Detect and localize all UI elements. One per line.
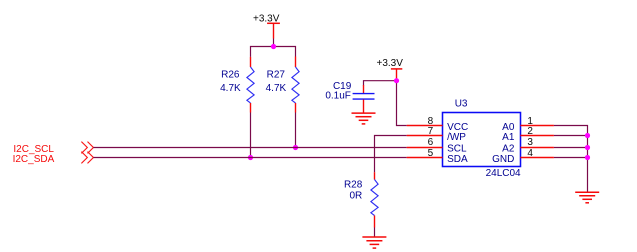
power +3.3V (VCC) <box>377 58 404 81</box>
pin 1 A0 <box>502 116 554 133</box>
ground (C19) <box>352 113 376 124</box>
wire power to C19 <box>364 81 397 86</box>
ground (A pins) <box>575 192 599 203</box>
pin 6 SCL <box>407 137 467 154</box>
svg-text:U3: U3 <box>455 99 468 110</box>
svg-text:SDA: SDA <box>447 154 468 165</box>
wire R27 to SCL <box>295 113 297 148</box>
svg-text:6: 6 <box>428 137 434 148</box>
wire power to VCC pin8 <box>397 81 407 126</box>
junction R26/SDA <box>248 155 253 160</box>
wire GND pin <box>554 157 588 159</box>
pin 7 /WP <box>407 126 467 143</box>
svg-text:4.7K: 4.7K <box>220 83 241 94</box>
junction rail/power <box>271 44 276 49</box>
power +3.3V (pull-up rail) <box>253 13 280 46</box>
junction power/VCC <box>394 78 399 83</box>
junction A1/bus <box>585 133 590 138</box>
svg-text:2: 2 <box>527 126 533 137</box>
svg-text:/WP: /WP <box>447 132 466 143</box>
resistor R26 <box>220 57 254 113</box>
svg-text:R26: R26 <box>221 70 240 81</box>
junction GND/bus <box>585 155 590 160</box>
pin 5 SDA <box>407 148 468 165</box>
resistor R27 <box>266 57 299 113</box>
svg-text:4.7K: 4.7K <box>266 83 287 94</box>
off-page connector I2C_SCL <box>13 142 93 155</box>
junction A2/bus <box>585 145 590 150</box>
IC U3 24LC04 body <box>443 99 522 180</box>
svg-text:SCL: SCL <box>447 144 467 155</box>
wire A0 bus <box>554 126 588 193</box>
wire R26 to SDA <box>250 113 252 158</box>
svg-text:3: 3 <box>527 137 533 148</box>
svg-text:GND: GND <box>492 154 514 165</box>
off-page connector I2C_SDA <box>13 152 94 165</box>
svg-text:I2C_SDA: I2C_SDA <box>13 154 55 165</box>
svg-text:A2: A2 <box>502 144 515 155</box>
pin 2 A1 <box>502 126 554 143</box>
pin 3 A2 <box>502 137 554 154</box>
svg-text:0.1uF: 0.1uF <box>325 91 351 102</box>
pin 4 GND <box>492 148 554 165</box>
resistor R28 <box>344 172 378 227</box>
wire SCL <box>93 147 406 149</box>
wire A2 <box>554 147 588 149</box>
wire SDA <box>93 157 406 159</box>
junction R27/SCL <box>293 145 298 150</box>
capacitor C19 <box>325 81 374 113</box>
wire rail top (R26/R27 tops) <box>251 47 296 57</box>
svg-text:5: 5 <box>428 148 434 159</box>
wire A1 <box>554 135 588 137</box>
svg-text:4: 4 <box>527 148 533 159</box>
wire R28 to ground <box>374 228 376 238</box>
svg-text:0R: 0R <box>350 190 363 201</box>
svg-text:A1: A1 <box>502 132 515 143</box>
wire /WP to R28 <box>375 136 407 173</box>
svg-text:R28: R28 <box>344 180 363 191</box>
svg-text:24LC04: 24LC04 <box>486 168 521 179</box>
svg-text:R27: R27 <box>267 70 286 81</box>
pin 8 VCC <box>407 116 469 133</box>
svg-text:7: 7 <box>428 126 434 137</box>
ground (R28) <box>362 237 386 248</box>
svg-text:+3.3V: +3.3V <box>377 58 404 69</box>
